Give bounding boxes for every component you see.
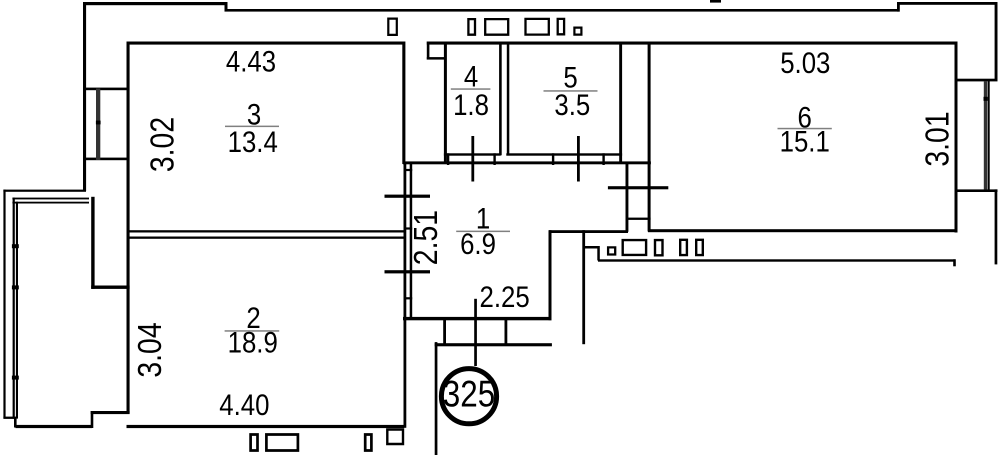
wall: room 5 bottom upper line [506, 153, 622, 155]
wall: room 5 right [619, 42, 622, 165]
vent: top shaft F [574, 28, 581, 35]
vent: bottom shaft wide [266, 435, 298, 451]
vent: bottom shaft narrow B [365, 435, 371, 451]
window: loggia mullion mark 2 [12, 285, 19, 289]
vent: top shaft E [558, 19, 564, 34]
wall: top wall of room 4 segment [427, 42, 957, 45]
wire: outer right wall below window [995, 189, 998, 264]
wire: balcony bottom rail [3, 417, 16, 419]
window: loggia top glazing inner line [12, 202, 89, 204]
vent: top shaft C [485, 19, 508, 35]
svg-text:3.04: 3.04 [131, 322, 169, 377]
wall: room 6 left / room1 east wall right line [648, 42, 651, 232]
window: left glazing mullion mark [96, 121, 101, 125]
svg-text:4.40: 4.40 [219, 388, 269, 421]
wall: room 3 top [127, 42, 405, 45]
door mark: room3-room1 opening tick [385, 195, 431, 198]
wall: room 4 bottom upper line [444, 153, 501, 155]
wall: room 2 right (lower part) and room1 west wall left line [404, 162, 407, 428]
vent: top shaft A [388, 19, 397, 35]
wall: room 4 entry notch bottom [427, 57, 446, 60]
node: apartment number circle 325 [441, 369, 496, 424]
door mark: entrance door right tick [505, 320, 508, 345]
svg-text:4.43: 4.43 [226, 45, 276, 78]
window: loggia top glazing outer line [12, 198, 89, 200]
wall: corridor outer wall right of hallway [582, 230, 585, 344]
svg-text:15.1: 15.1 [780, 125, 830, 158]
wall: room 2 bottom notch left side [91, 411, 94, 428]
vent: top shaft D [526, 19, 549, 35]
node: top dimension tick [710, 0, 721, 3]
svg-text:3.01: 3.01 [918, 111, 956, 166]
vent: mid shaft wide [623, 240, 646, 255]
wire: building corridor left wall down [435, 342, 438, 455]
svg-text:13.4: 13.4 [228, 125, 278, 158]
wire: outer top wall left segment [83, 2, 228, 5]
wall: room 6 bottom [648, 229, 956, 232]
node: room1 east wall connector [626, 218, 651, 220]
wire: loggia window sill joint [14, 417, 17, 428]
door mark: room1-room6 opening tick [608, 186, 668, 189]
wall: hallway right wall upper [549, 230, 552, 320]
wall: room 3 right upper [402, 42, 405, 165]
window: room 6 glazing black line [988, 81, 990, 190]
vent: mid shaft C [655, 240, 663, 255]
wall: left pier vertical [91, 197, 94, 289]
svg-text:5.03: 5.03 [780, 46, 830, 79]
wall: room 6 right [955, 42, 958, 233]
wall: room 2 bottom right segment [127, 425, 405, 428]
wire: balcony outer left rail [3, 190, 5, 419]
wall: room1 west wall right line [410, 162, 413, 321]
wire: outer top wall step down [225, 2, 228, 12]
wire: building corridor line [435, 343, 552, 346]
node: opening end tick room5 left [552, 153, 554, 165]
wall: room 1 bottom [403, 317, 552, 320]
wire: outer right wall top [995, 2, 998, 80]
label: room 2 underline [225, 330, 280, 332]
svg-text:1.8: 1.8 [453, 88, 489, 121]
wall: room 4 left [444, 42, 447, 165]
wall: room 2 bottom left segment [16, 425, 93, 428]
window: loggia left glazing outer line [13, 198, 15, 419]
window: room 6 glazing mullion mark [984, 97, 988, 101]
svg-text:2.51: 2.51 [407, 210, 445, 265]
node: room1 west wall connector lower [404, 297, 413, 299]
wire: apartment number leader line [474, 299, 477, 366]
label: room 3 underline [225, 126, 279, 128]
svg-text:3.02: 3.02 [143, 117, 181, 172]
wall: room 2 bottom notch top [91, 411, 130, 414]
vent: top shaft B [468, 19, 475, 35]
window: room 6 niche sill line [956, 189, 998, 192]
wall: room4/room5 divider right line [507, 43, 510, 155]
node: opening end tick room5 right [602, 153, 604, 165]
window: left glazing gray [96, 89, 100, 161]
window: loggia mullion mark 1 [12, 244, 19, 248]
wire: outer top wall step up right [897, 2, 900, 12]
wall: room2/room3 divider lower line [129, 237, 404, 239]
door mark: room 4 doorway centerline [471, 136, 474, 182]
wall: room 1 bottom-right wall to room 6 [549, 230, 628, 233]
wall: corridor top long line under rooms 4,5 [403, 161, 651, 164]
node: room1 west wall connector top [404, 169, 413, 171]
wall: room 4 entry notch left side [427, 42, 430, 60]
wire: lower corridor long line [598, 259, 956, 261]
wall: room4/room5 divider left line [499, 43, 502, 155]
window: room 6 glazing gray [984, 81, 988, 190]
wire: corridor step vertical [597, 246, 600, 261]
door mark: room 5 doorway centerline [577, 136, 580, 182]
wire: balcony outer top rail [3, 190, 86, 192]
node: opening end tick room4 left [447, 153, 449, 165]
wire: outer top wall middle segment [225, 9, 900, 12]
svg-text:3.5: 3.5 [554, 88, 590, 121]
svg-text:325: 325 [443, 374, 495, 415]
svg-text:18.9: 18.9 [228, 326, 278, 359]
node: room1 west wall connector upper [404, 227, 413, 229]
svg-text:2.25: 2.25 [480, 280, 530, 313]
label: room 5 underline [544, 90, 598, 92]
node: entry pier square below wall [387, 430, 403, 445]
wall: room 3 left (down to bottom notch) [127, 42, 130, 414]
wall: room1 east wall left line [626, 162, 629, 232]
window: loggia left glazing inner line [16, 202, 18, 419]
node: opening end tick room4 right [493, 153, 495, 165]
label: room 1 underline [456, 231, 510, 233]
vent: mid shaft small [608, 247, 615, 254]
vent: bottom shaft narrow A [251, 435, 258, 451]
wire: outer top wall right segment [897, 2, 998, 5]
node: lower corridor line end hook [953, 259, 956, 266]
window: room 6 niche top line [956, 79, 998, 82]
vent: mid shaft D [680, 240, 687, 255]
vent: mid shaft E [696, 240, 703, 255]
window: loggia mullion mark 3 [12, 376, 19, 380]
window: left niche top line [85, 88, 130, 91]
door mark: room2-room1 opening tick [385, 270, 431, 273]
label: room 6 underline [778, 128, 832, 130]
label: room 4 underline [451, 88, 491, 90]
window: left niche bottom line [85, 158, 130, 161]
door mark: entrance door left tick [443, 320, 446, 345]
wire: corridor step horizontal [584, 246, 600, 249]
wall: left pier step horizontal [91, 286, 129, 289]
wire: outer left wall [83, 2, 86, 191]
svg-text:6.9: 6.9 [460, 227, 496, 260]
wall: room2/room3 divider upper line [129, 230, 404, 232]
